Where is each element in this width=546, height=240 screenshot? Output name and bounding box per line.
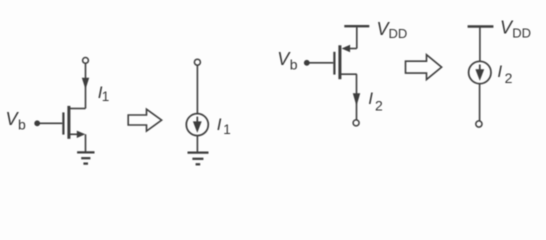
svg-text:1: 1	[102, 89, 110, 104]
node output terminal of ideal source I1 (open circle)	[194, 59, 200, 65]
current source I2 (ideal)	[469, 61, 491, 83]
label Vb (bias of M2)	[277, 49, 298, 72]
wire VDD down to current source I2	[479, 28, 481, 62]
wire gate lead of M2	[309, 62, 333, 64]
node Vb terminal dot (gate of M2)	[304, 60, 310, 66]
ground (below ideal source I1)	[188, 153, 209, 165]
wire source of M2 up to VDD	[356, 27, 358, 48]
wire current source I1 down to ground	[196, 136, 198, 153]
wire gate lead of M1	[40, 122, 63, 124]
label VDD (ideal source)	[500, 18, 531, 41]
svg-text:I: I	[368, 89, 373, 108]
ground (below M1)	[77, 152, 94, 163]
current source I1 (ideal)	[186, 114, 208, 136]
svg-text:b: b	[290, 56, 298, 72]
transistor M2 (PMOS)	[334, 45, 356, 79]
node Vb terminal dot (gate of M1)	[34, 120, 40, 126]
label I1 (left circuit)	[98, 83, 110, 104]
wire source of M1 down to ground	[85, 134, 87, 152]
wire drain of M1 up to output terminal	[85, 63, 87, 108]
transistor M1 (NMOS)	[63, 106, 85, 139]
wire terminal down to current source I1	[196, 65, 198, 114]
svg-text:2: 2	[375, 97, 383, 113]
svg-text:b: b	[18, 116, 26, 132]
svg-text:I: I	[217, 115, 222, 134]
node output terminal of M1 (open circle)	[83, 58, 89, 64]
node output terminal of M2 (open circle)	[353, 120, 359, 126]
equivalence arrow (left)	[128, 109, 161, 131]
label I2 (right circuit)	[368, 89, 383, 113]
equivalence arrow (right)	[406, 55, 442, 80]
svg-text:1: 1	[223, 122, 231, 137]
label I1 (ideal source)	[217, 115, 231, 137]
svg-text:2: 2	[505, 70, 513, 86]
label Vb (bias of M1)	[6, 109, 27, 132]
power rail VDD (above ideal source I2)	[468, 25, 494, 27]
wire drain of M2 down to output terminal	[356, 74, 358, 120]
current direction arrow I2 on drain wire	[353, 93, 360, 106]
svg-text:I: I	[497, 62, 502, 81]
wire current source I2 down to output terminal	[479, 84, 481, 121]
power rail VDD (above M2)	[344, 25, 369, 27]
label I2 (ideal source)	[497, 62, 512, 86]
svg-text:DD: DD	[512, 25, 531, 40]
label VDD (above M2)	[377, 19, 408, 41]
node output terminal of ideal source I2 (open circle)	[476, 121, 482, 127]
current direction arrow I1 on drain wire	[82, 78, 89, 89]
svg-text:DD: DD	[389, 26, 408, 41]
